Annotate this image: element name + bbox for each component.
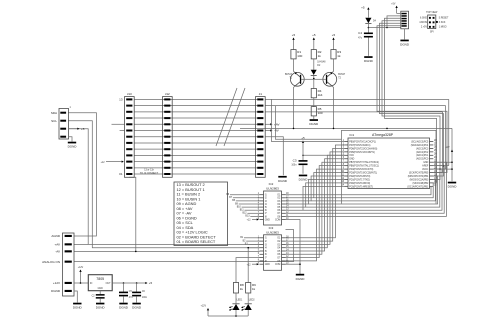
capacitor C5 xyxy=(123,283,125,292)
wire IC3 input to LED2 xyxy=(248,248,259,283)
connector X1 bottom left xyxy=(63,233,75,296)
svg-text:B12: B12 xyxy=(243,213,248,215)
svg-text:(MISO/PCINT4)PB4: (MISO/PCINT4)PB4 xyxy=(408,176,429,178)
svg-text:GND: GND xyxy=(98,288,103,290)
ground DGND right of IC1 xyxy=(448,182,456,184)
svg-text:100: 100 xyxy=(297,54,302,58)
capacitor C2 below regulator xyxy=(99,291,101,295)
svg-text:DGND: DGND xyxy=(51,289,61,293)
svg-text:PD4(PCINT20/XCK/T0): PD4(PCINT20/XCK/T0) xyxy=(349,169,373,171)
svg-text:PD7(PCINT23/AIN1): PD7(PCINT23/AIN1) xyxy=(349,144,370,147)
svg-text:+12V: +12V xyxy=(53,281,60,285)
svg-text:ULN2803: ULN2803 xyxy=(266,230,279,234)
connector SV1 I2C xyxy=(59,109,69,140)
wire SCL net long run to IC3 row3 xyxy=(68,121,260,248)
LED LED2 xyxy=(247,293,249,303)
svg-text:(MOSI/OC2A)PB3: (MOSI/OC2A)PB3 xyxy=(410,178,429,181)
resistor R4 xyxy=(311,89,316,98)
ground DGND below ULN xyxy=(296,274,304,276)
svg-text:100n: 100n xyxy=(291,165,297,167)
connector J13 xyxy=(125,97,135,178)
power +12V arrow xyxy=(80,270,82,283)
wire J13 pin1 down joining row4 net xyxy=(129,177,136,251)
svg-text:GND: GND xyxy=(265,264,270,266)
node +12 arrow at J13 row10 xyxy=(106,161,123,163)
capacitor C6 xyxy=(136,283,138,292)
svg-text:2.+5V: 2.+5V xyxy=(421,27,428,29)
wire bus row4 left stub xyxy=(112,123,125,125)
svg-text:1k: 1k xyxy=(318,54,322,58)
wire T2 emitter to rail xyxy=(332,86,333,128)
svg-text:4.MOSI: 4.MOSI xyxy=(419,22,427,24)
svg-text:ULN2803: ULN2803 xyxy=(266,186,279,190)
wires IC3 inputs short with labels xyxy=(244,237,260,239)
capacitor C4 xyxy=(364,33,373,35)
node -AV arrow at J1 xyxy=(265,130,272,132)
svg-text:PD6(PCINT22/OC0A/AIN0): PD6(PCINT22/OC0A/AIN0) xyxy=(349,147,377,150)
wire R2 to diode xyxy=(313,59,315,70)
svg-text:ANALOG ON: ANALOG ON xyxy=(42,260,60,264)
wire ANALOG ON net xyxy=(74,230,294,262)
wire IC3 input to LED1 xyxy=(236,258,260,283)
wire -AV row to IC3 row4 xyxy=(74,250,260,252)
svg-text:(ADC0)PC0: (ADC0)PC0 xyxy=(416,158,429,161)
wire IC1 outline wrap xyxy=(342,130,437,203)
wire +AV row to IC3 row2 xyxy=(74,243,88,245)
resistor R1 xyxy=(291,50,296,59)
wire staircase IC1 left pins down xyxy=(303,186,345,210)
svg-text:100: 100 xyxy=(318,111,323,115)
svg-text:J13: J13 xyxy=(127,92,132,96)
svg-text:1k: 1k xyxy=(240,287,244,291)
svg-text:DGND: DGND xyxy=(299,178,309,182)
svg-text:PC6(PCINT14/RESET): PC6(PCINT14/RESET) xyxy=(349,186,373,188)
svg-text:J12: J12 xyxy=(165,92,170,96)
svg-text:AGND: AGND xyxy=(51,234,61,238)
svg-text:PB6(PCINT6/XTAL1/TOSC1): PB6(PCINT6/XTAL1/TOSC1) xyxy=(349,165,379,168)
wire diode to base node xyxy=(313,75,315,88)
ground DGND below C4 xyxy=(364,56,372,58)
resistor R5 xyxy=(311,107,316,116)
resistor R3 xyxy=(331,50,336,59)
node +12 arrow at IC2 GND pin xyxy=(252,219,258,221)
node +5 arrow at SV1 pin3 xyxy=(68,128,79,130)
svg-text:SCL: SCL xyxy=(51,119,57,123)
svg-text:(SS/OC1B)PB2: (SS/OC1B)PB2 xyxy=(412,183,429,185)
op-amp/MCU IC1 ATmega328P xyxy=(348,138,430,189)
connector SV2 ISP xyxy=(401,11,409,29)
svg-text:DGND: DGND xyxy=(73,306,83,310)
wire C3 node to IC1 VCC xyxy=(303,154,345,156)
node +AV arrow at J1 xyxy=(265,123,272,125)
svg-text:1N4148: 1N4148 xyxy=(317,62,326,64)
svg-text:DGND: DGND xyxy=(132,306,142,310)
svg-text:DGND: DGND xyxy=(309,122,319,126)
svg-text:+5: +5 xyxy=(332,33,336,37)
wire T1 emitter to rail xyxy=(294,86,295,128)
resistor R8 for LED1 xyxy=(233,283,238,294)
ground DGND below J1 xyxy=(278,176,286,178)
svg-text:1.MISO: 1.MISO xyxy=(439,27,447,29)
diode D4 top right xyxy=(367,8,369,18)
svg-text:(ADC3)PC3: (ADC3)PC3 xyxy=(416,147,429,150)
svg-text:+5V: +5V xyxy=(391,4,396,6)
wire AGND net up to SDA connector xyxy=(68,113,96,236)
svg-text:100n: 100n xyxy=(142,297,148,299)
svg-text:1k: 1k xyxy=(252,287,256,291)
svg-text:PD2(PCINT18/INT0): PD2(PCINT18/INT0) xyxy=(349,176,370,178)
svg-text:+5: +5 xyxy=(81,127,85,131)
connector J12 xyxy=(163,97,173,178)
svg-text:+12V: +12V xyxy=(78,267,84,269)
wire +5 net long run to IC3 row2 xyxy=(68,129,260,245)
transistor block power arrows xyxy=(293,38,295,49)
svg-text:COM: COM xyxy=(275,219,280,221)
ground DGND below R5 xyxy=(313,116,315,119)
svg-text:DGND: DGND xyxy=(364,59,374,63)
svg-text:COM: COM xyxy=(275,264,280,266)
svg-text:(OC1A/PCINT1)PB1: (OC1A/PCINT1)PB1 xyxy=(407,185,429,188)
resistor R9 for LED2 xyxy=(246,283,251,294)
svg-text:AVCC: AVCC xyxy=(422,168,429,171)
svg-text:+AV: +AV xyxy=(54,243,60,247)
connector J1 xyxy=(256,97,266,178)
svg-text:+5: +5 xyxy=(292,33,296,37)
wire bus row5 left stub xyxy=(120,130,125,132)
svg-text:13: 13 xyxy=(119,98,123,102)
svg-text:+5V: +5V xyxy=(445,147,450,149)
svg-text:(SCK/PCINT5)PB5: (SCK/PCINT5)PB5 xyxy=(409,172,429,174)
ground DGND below X1 xyxy=(73,303,81,305)
svg-text:(SDA/ADC4)PC4: (SDA/ADC4)PC4 xyxy=(411,144,429,147)
svg-text:DGND: DGND xyxy=(400,43,410,47)
svg-text:LED2: LED2 xyxy=(249,299,255,301)
svg-text:PD1(PCINT17/TXD): PD1(PCINT17/TXD) xyxy=(349,179,370,181)
wire J1 row2 drop to IC1 region xyxy=(275,106,341,140)
wire IC3 COM to DGND xyxy=(286,263,301,265)
svg-text:VCC: VCC xyxy=(349,155,354,157)
node +12 arrow at IC3 GND pin xyxy=(252,263,258,265)
svg-text:ATmega328P: ATmega328P xyxy=(372,133,394,137)
wire +5 rail to SPI conn xyxy=(368,27,401,29)
svg-text:-AV: -AV xyxy=(274,129,279,133)
svg-text:C3: C3 xyxy=(293,159,297,163)
svg-text:6.GND: 6.GND xyxy=(420,18,427,20)
resistor R2 xyxy=(311,50,316,59)
svg-text:PD5(PCINT21/OC0B/T1): PD5(PCINT21/OC0B/T1) xyxy=(349,152,375,154)
wire T1 collector xyxy=(294,59,296,73)
voltage regulator IC4 7805 xyxy=(88,275,112,291)
svg-text:BC547: BC547 xyxy=(285,74,293,76)
svg-text:PB7(PCINT7/XTAL2/TOSC2): PB7(PCINT7/XTAL2/TOSC2) xyxy=(349,161,379,164)
power +5 arrow at C3 xyxy=(302,141,304,152)
ground DGND below C3 xyxy=(299,175,307,177)
svg-text:DGND: DGND xyxy=(448,185,458,189)
wire IC1 GND row to right vertical xyxy=(433,161,452,163)
svg-text:DGND: DGND xyxy=(96,306,106,310)
svg-text:SDA: SDA xyxy=(51,111,57,115)
svg-text:01 = BOARD SELECT: 01 = BOARD SELECT xyxy=(177,239,216,244)
svg-text:+5: +5 xyxy=(361,5,365,9)
wire T2 collector xyxy=(332,59,334,73)
power +5V arrow at ISP xyxy=(396,6,398,13)
svg-text:LED1: LED1 xyxy=(237,299,243,301)
node +5 arrow output xyxy=(144,282,147,284)
svg-text:GND: GND xyxy=(265,219,270,221)
svg-text:3.SCK: 3.SCK xyxy=(439,22,446,24)
node base junction xyxy=(313,78,315,80)
svg-text:GND: GND xyxy=(423,162,428,164)
svg-text:IC1: IC1 xyxy=(350,133,355,137)
wire IC2 COM down xyxy=(286,220,301,275)
legend box pin name table xyxy=(174,182,228,246)
transistor T2 BC547 xyxy=(323,72,337,86)
svg-text:TOP VIEW: TOP VIEW xyxy=(426,12,438,14)
ground DGND below ISP xyxy=(404,29,406,40)
wires IC2 inputs with net labels xyxy=(230,194,260,196)
svg-text:7805: 7805 xyxy=(96,277,104,281)
wire bus rows 1-3 to right wrap xyxy=(265,98,449,100)
power +5V arrow right of IC1 xyxy=(451,150,453,152)
svg-text:PD3(PCINT19/OC2B/INT1): PD3(PCINT19/OC2B/INT1) xyxy=(349,172,377,174)
svg-text:TO J2 CONNECT: TO J2 CONNECT xyxy=(140,173,159,175)
svg-text:IN: IN xyxy=(90,283,93,285)
svg-text:+12V: +12V xyxy=(201,306,207,308)
wire emitter +5 rail xyxy=(240,127,452,129)
svg-text:01: 01 xyxy=(119,172,123,176)
svg-text:DGND: DGND xyxy=(119,306,129,310)
svg-text:-AV: -AV xyxy=(55,250,60,254)
transistor T1 BC547 xyxy=(290,72,304,86)
svg-text:AREF: AREF xyxy=(422,165,429,168)
svg-text:PD0(PCINT16/RXD): PD0(PCINT16/RXD) xyxy=(349,183,370,185)
wire rail down right side to ground xyxy=(451,128,453,181)
wire +12V to regulator xyxy=(74,282,88,284)
wire LED cathode rail to +12V xyxy=(208,315,248,317)
svg-text:+5: +5 xyxy=(149,281,153,285)
capacitor C3 100n xyxy=(302,153,304,161)
ground DGND below C6 xyxy=(132,303,140,305)
svg-text:B13: B13 xyxy=(245,216,250,218)
svg-text:C4: C4 xyxy=(358,31,362,35)
svg-text:2k4: 2k4 xyxy=(318,93,323,97)
svg-text:B10: B10 xyxy=(237,206,242,208)
wire X1 DGND pin to ground xyxy=(74,291,77,303)
svg-text:OUT: OUT xyxy=(106,283,111,285)
svg-text:PB0(PCINT0/CLKO/ICP1): PB0(PCINT0/CLKO/ICP1) xyxy=(349,141,376,143)
svg-text:13 or 13x: 13 or 13x xyxy=(144,169,154,172)
wire bus J13-J12-J1 horizontal lines xyxy=(134,98,257,100)
wire regulator output rail xyxy=(112,282,143,284)
svg-text:SPI: SPI xyxy=(430,31,434,33)
wires ISP pins to left verticals xyxy=(387,16,401,28)
ground DGND below C2 xyxy=(96,303,104,305)
ground DGND below C5 xyxy=(119,303,127,305)
svg-text:+AV: +AV xyxy=(274,122,280,126)
svg-text:(ADC1)PC1: (ADC1)PC1 xyxy=(416,154,429,157)
bus slash marks xyxy=(216,88,237,146)
svg-text:(ADC2)PC2: (ADC2)PC2 xyxy=(416,151,429,154)
svg-text:DGND: DGND xyxy=(296,277,306,281)
svg-text:BC547: BC547 xyxy=(338,74,346,76)
svg-text:5.RESET: 5.RESET xyxy=(439,18,449,20)
svg-text:GND: GND xyxy=(349,159,354,161)
wire R4-R5 xyxy=(313,98,315,107)
wire ULN IC2 outputs wrap to IC1 right pins xyxy=(286,186,434,194)
wire IC1 AVCC row to right vertical xyxy=(433,168,452,170)
svg-text:(SCL/ADC5)PC5: (SCL/ADC5)PC5 xyxy=(411,140,429,143)
svg-text:DGND: DGND xyxy=(68,145,78,149)
svg-text:J1: J1 xyxy=(259,92,263,96)
svg-text:+5: +5 xyxy=(312,33,316,37)
diode D2 1N4148 xyxy=(311,70,317,75)
LED LED1 xyxy=(235,293,237,303)
node diode junction xyxy=(368,27,370,29)
ground DGND at SV1 pin4 xyxy=(68,137,72,142)
svg-text:DGND: DGND xyxy=(278,179,288,183)
wire J1 DGND pin to ground xyxy=(265,137,283,175)
wire J1 row1 drop to IC1 pin1 xyxy=(272,99,345,141)
svg-text:1k: 1k xyxy=(337,54,341,58)
node junction dots right of IC1 xyxy=(443,165,445,167)
